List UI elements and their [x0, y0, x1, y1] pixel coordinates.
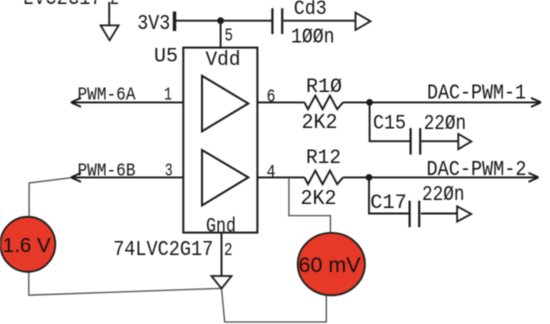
svg-text:U5: U5	[154, 45, 178, 68]
svg-text:3V3: 3V3	[137, 13, 170, 36]
svg-text:Cd3: Cd3	[294, 0, 327, 21]
svg-text:22Øn: 22Øn	[422, 184, 465, 207]
svg-text:60 mV: 60 mV	[299, 253, 362, 277]
svg-text:R12: R12	[306, 147, 341, 170]
svg-text:1ØØn: 1ØØn	[291, 27, 335, 50]
svg-text:2K2: 2K2	[302, 112, 338, 135]
svg-text:22Øn: 22Øn	[424, 113, 467, 136]
svg-text:2K2: 2K2	[301, 188, 337, 211]
svg-text:3: 3	[165, 161, 173, 182]
svg-text:2: 2	[110, 0, 119, 11]
svg-text:2: 2	[224, 240, 233, 261]
svg-text:DAC-PWM-2: DAC-PWM-2	[427, 159, 527, 182]
svg-text:PWM-6A: PWM-6A	[78, 85, 137, 106]
svg-text:74LVC2G17: 74LVC2G17	[113, 239, 213, 262]
svg-text:5: 5	[225, 26, 234, 47]
svg-text:PWM-6B: PWM-6B	[78, 160, 136, 181]
svg-text:DAC-PWM-1: DAC-PWM-1	[427, 82, 526, 105]
svg-text:4: 4	[267, 162, 276, 183]
svg-text:1: 1	[164, 85, 172, 106]
svg-text:R1Ø: R1Ø	[306, 76, 342, 99]
svg-text:LVC2G17: LVC2G17	[23, 0, 102, 11]
svg-text:C15: C15	[373, 112, 406, 135]
svg-text:6: 6	[267, 87, 276, 108]
svg-text:Vdd: Vdd	[206, 49, 241, 72]
svg-text:1.6 V: 1.6 V	[3, 234, 51, 257]
svg-text:Gnd: Gnd	[206, 215, 236, 238]
svg-text:C17: C17	[370, 192, 407, 215]
